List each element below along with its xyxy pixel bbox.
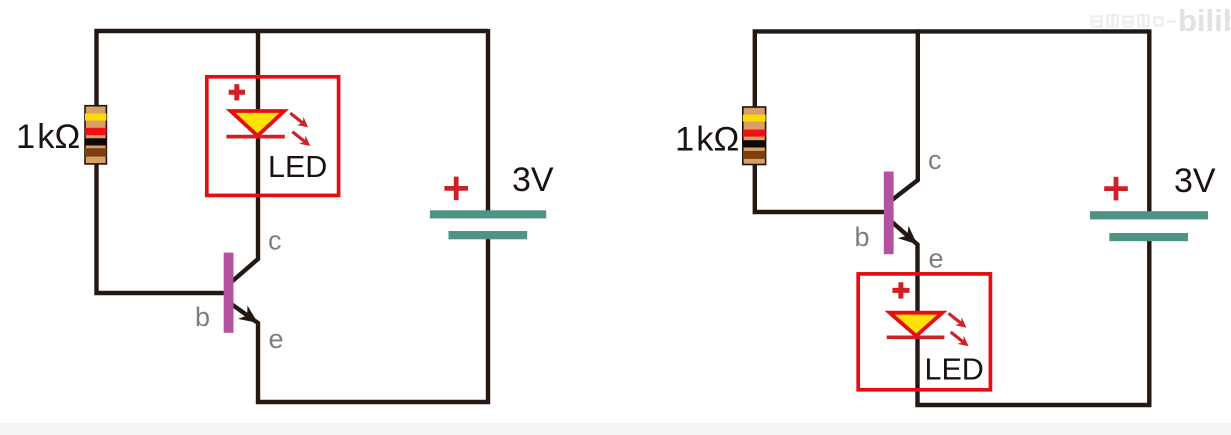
LED cathode bar right [887,335,945,339]
svg-text:1kΩ: 1kΩ [675,121,739,159]
svg-text:c: c [928,145,942,175]
wire: right vertical lower + bottom rail right circuit [916,237,1150,405]
LED cathode bar left [226,135,284,139]
svg-text:bilib: bilib [1178,3,1231,38]
LED triangle left [231,111,285,136]
label c left [268,226,282,256]
LED plus sign right [892,282,909,298]
footer strip [0,423,1231,435]
wire: emitter to bottom rail [232,305,258,405]
LED box left [207,77,339,196]
resistor 1kΩ left [85,106,106,164]
battery left plate + [430,210,546,218]
LED triangle right [890,313,943,336]
emitter arrowhead [241,308,257,322]
svg-text:c: c [268,226,282,256]
wire: right vertical upper (top rail to battery +) [486,29,490,215]
label LED right [925,353,984,387]
LED light arrow upper left [290,113,308,127]
battery right plate - [1109,233,1188,241]
label 1kΩ right [675,121,739,159]
wire: right vertical lower + bottom rail [256,236,488,402]
label 3V left [512,161,554,199]
label b right [855,222,870,252]
wire: left branch right circuit (top rail + left vertical + base run) [755,31,1150,212]
label c right [928,145,942,175]
LED box right [858,274,990,390]
svg-text:b: b [195,302,210,332]
LED light arrow upper right [949,313,967,327]
svg-text:e: e [929,244,944,274]
svg-text:1kΩ: 1kΩ [16,118,80,156]
transistor left (PNP bar) [224,253,234,333]
svg-text:3V: 3V [512,161,554,199]
transistor right (PNP bar) [884,172,894,255]
svg-text:b: b [855,222,870,252]
battery left plate - [449,231,528,239]
LED light arrow lower left [292,132,310,146]
svg-text:e: e [269,324,284,354]
label 1kΩ left [16,118,80,156]
watermark bilibili [1092,3,1231,38]
battery plus sign left [444,177,468,201]
svg-text:LED: LED [268,150,327,184]
label e left [269,324,284,354]
wire: left branch (top rail + left vertical + base run) [97,31,489,293]
emitter arrowhead right [900,228,916,243]
wire: collector branch right circuit [892,29,918,200]
battery plus sign right [1104,177,1128,201]
wire: right vertical upper right circuit [1147,29,1151,215]
label 3V right [1174,162,1216,200]
label b left [195,302,210,332]
label e right [929,244,944,274]
svg-text:LED: LED [925,353,984,387]
LED plus sign left [229,84,245,100]
wire: LED branch vertical (top rail to collector) [232,29,258,282]
svg-text:3V: 3V [1174,162,1216,200]
battery right plate + [1090,211,1208,219]
LED light arrow lower right [951,332,969,346]
wire: emitter through LED to bottom right circuit [892,222,918,407]
label LED left [268,150,327,184]
resistor 1kΩ right [743,107,766,165]
